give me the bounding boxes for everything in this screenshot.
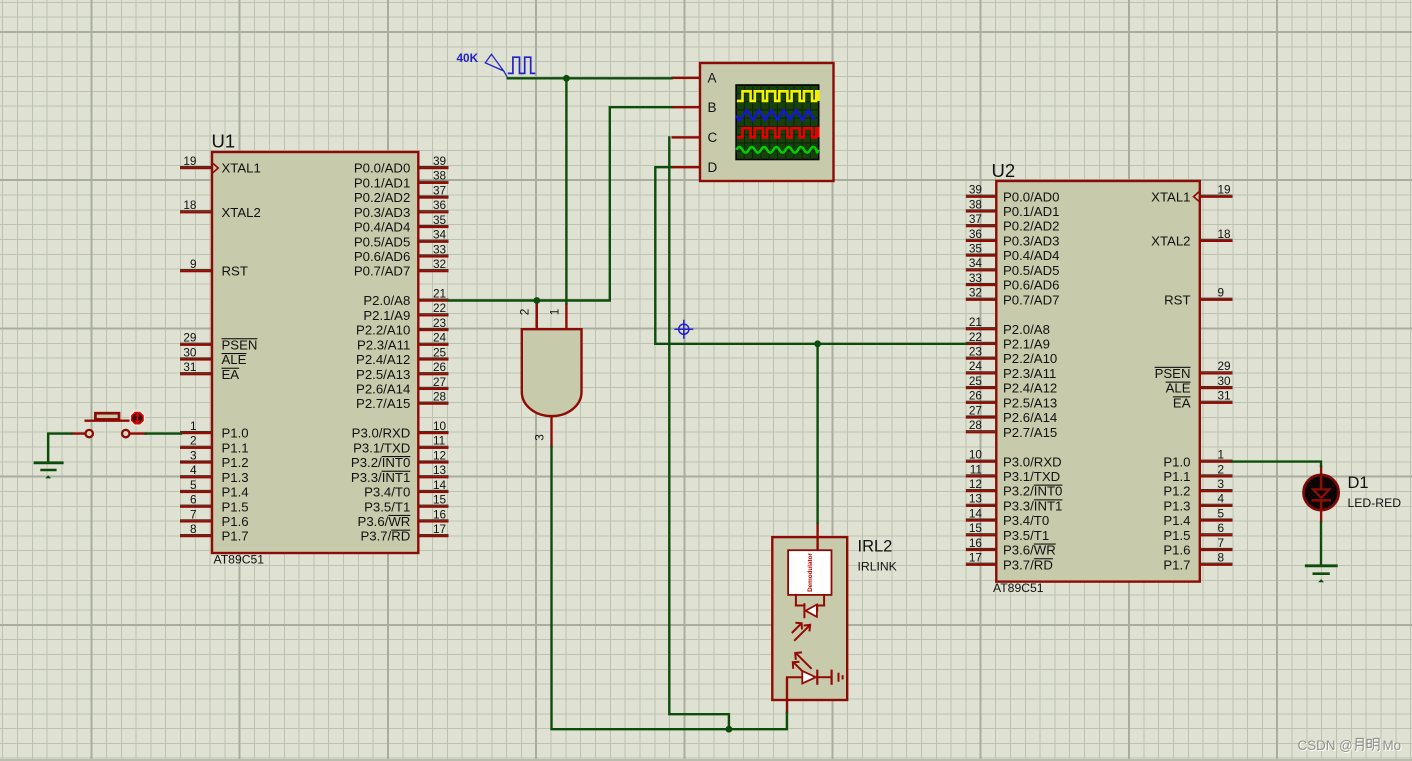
wire and-gate output to IRL2 bottom pin [552,447,787,729]
IRL2 incoming IR arrows [792,623,810,641]
svg-text:P3.4/T0: P3.4/T0 [1003,513,1049,528]
svg-text:P2.5/A13: P2.5/A13 [356,367,410,382]
svg-text:3: 3 [190,448,197,462]
svg-text:2: 2 [190,434,197,448]
IRL2 bottom pin [786,677,788,714]
svg-text:P1.6: P1.6 [222,514,249,529]
svg-text:34: 34 [433,228,447,242]
svg-text:P2.4/A12: P2.4/A12 [356,352,410,367]
U1 pin 24 (P2.3/A11) [357,331,448,353]
label AT89C51 value [993,581,1044,595]
svg-text:15: 15 [969,521,983,535]
svg-text:P1.0: P1.0 [1163,454,1190,469]
svg-text:6: 6 [190,493,197,507]
U2 pin 39 (P0.0/AD0) [966,183,1060,205]
svg-text:14: 14 [433,478,447,492]
U2 pin 15 (P3.5/T1) [966,521,1049,543]
U1 pin 33 (P0.6/AD6) [354,242,449,264]
svg-text:IRLINK: IRLINK [858,560,897,574]
U2 pin 37 (P0.2/AD2) [966,212,1060,234]
svg-text:P0.3/AD3: P0.3/AD3 [1003,233,1059,248]
U2 pin 34 (P0.5/AD5) [966,256,1060,278]
U2 pin 14 (P3.4/T0) [966,506,1049,528]
svg-text:P2.4/A12: P2.4/A12 [1003,381,1057,396]
U2 pin 30 (ALE) [1166,374,1233,396]
wire node to IRL2 top pin [816,344,818,523]
junction and-gate pin 2 node [533,297,540,304]
svg-text:P3.7/RD: P3.7/RD [360,529,410,544]
svg-text:RST: RST [222,264,248,279]
svg-text:P0.3/AD3: P0.3/AD3 [354,205,410,220]
clock source symbol [485,54,535,78]
svg-text:1: 1 [190,419,197,433]
and-gate body [522,329,582,416]
U2 pin 24 (P2.3/A11) [966,359,1056,381]
svg-text:33: 33 [433,242,447,256]
svg-text:14: 14 [969,506,983,520]
svg-text:LED-RED: LED-RED [1348,496,1402,510]
U1 XTAL1 clock marker [213,163,218,173]
U2 pin 35 (P0.4/AD4) [966,241,1060,263]
IRL2 outgoing IR arrows [793,652,812,671]
svg-text:PSEN: PSEN [222,337,258,352]
svg-text:P1.0: P1.0 [222,426,249,441]
svg-text:P0.2/AD2: P0.2/AD2 [1003,219,1059,234]
svg-text:U2: U2 [992,160,1016,181]
svg-text:27: 27 [433,375,446,389]
wire button to ground [48,434,71,462]
label D1 designator [1348,474,1369,492]
svg-text:25: 25 [969,374,983,388]
svg-text:P1.6: P1.6 [1163,543,1190,558]
svg-text:7: 7 [1218,536,1225,550]
svg-text:P1.4: P1.4 [222,485,249,500]
and-gate pin 3 (output) [532,416,552,448]
svg-text:12: 12 [433,448,446,462]
svg-text:P1.5: P1.5 [222,499,249,514]
svg-text:9: 9 [190,257,197,271]
U2 pin 11 (P3.1/TXD) [966,462,1060,484]
U1 pin 36 (P0.3/AD3) [354,198,449,220]
U1 pin 10 (P3.0/RXD) [352,419,449,441]
oscilloscope green trace (channel D) [736,147,818,153]
svg-text:P0.6/AD6: P0.6/AD6 [1003,278,1059,293]
svg-text:30: 30 [1218,374,1232,388]
svg-text:P1.3: P1.3 [1163,498,1190,513]
U1 pin 12 (P3.2/INT0) [351,448,449,470]
svg-text:IRL2: IRL2 [858,538,893,556]
svg-text:31: 31 [1218,389,1231,403]
svg-text:26: 26 [969,389,983,403]
svg-text:32: 32 [969,286,982,300]
svg-text:29: 29 [1218,359,1231,373]
svg-text:40K: 40K [457,51,479,65]
U2 pin 28 (P2.7/A15) [966,418,1057,440]
junction bottom net node [726,726,733,733]
svg-text:7: 7 [190,507,197,521]
svg-text:1: 1 [547,309,561,316]
U1 pin 25 (P2.4/A12) [356,345,448,367]
svg-text:XTAL1: XTAL1 [1151,189,1190,204]
svg-text:4: 4 [1218,492,1225,506]
svg-text:P3.7/RD: P3.7/RD [1003,557,1053,572]
oscilloscope pin A [672,71,717,86]
U2 pin 23 (P2.2/A10) [966,345,1057,367]
svg-text:22: 22 [969,330,982,344]
svg-text:P1.3: P1.3 [222,470,249,485]
svg-text:P3.1/TXD: P3.1/TXD [1003,469,1060,484]
svg-text:P1.2: P1.2 [1163,484,1190,499]
U1 pin 13 (P3.3/INT1) [351,463,449,485]
svg-text:XTAL1: XTAL1 [222,161,261,176]
U1 pin 6 (P1.5) [180,493,249,515]
svg-text:B: B [708,100,717,115]
IRL2 demodulator box [788,550,831,595]
U1 pin 21 (P2.0/A8) [363,286,448,308]
svg-text:P0.4/AD4: P0.4/AD4 [1003,248,1059,263]
wire led D1 to ground [1320,523,1322,565]
svg-text:11: 11 [433,434,445,448]
svg-text:36: 36 [969,227,983,241]
U2 pin 38 (P0.1/AD1) [966,197,1060,219]
svg-text:P0.1/AD1: P0.1/AD1 [1003,204,1059,219]
svg-text:19: 19 [183,154,196,168]
svg-text:24: 24 [969,359,983,373]
svg-text:P3.6/WR: P3.6/WR [1003,543,1056,558]
U2 pin 13 (P3.3/INT1) [966,492,1063,514]
U1 pin 3 (P1.2) [180,448,249,470]
svg-text:28: 28 [969,418,983,432]
svg-text:38: 38 [969,197,983,211]
label U1 designator [212,131,236,152]
svg-text:Mo: Mo [1383,738,1402,753]
svg-text:P2.0/A8: P2.0/A8 [363,293,410,308]
label LED-RED value [1348,496,1402,510]
svg-text:13: 13 [433,463,447,477]
U2 pin 21 (P2.0/A8) [966,315,1050,337]
U1 pin 5 (P1.4) [180,478,249,500]
svg-text:6: 6 [1218,521,1225,535]
U1 pin 38 (P0.1/AD1) [354,169,449,191]
svg-text:2: 2 [1218,462,1225,476]
svg-text:P2.7/A15: P2.7/A15 [1003,425,1057,440]
svg-text:27: 27 [969,403,982,417]
wire 40K to oscilloscope A [508,77,672,79]
push button SW [72,413,146,437]
junction clock node [563,75,570,82]
U2 pin 7 (P1.6) [1163,536,1232,558]
junction IRL2/P2.1 node [814,340,821,347]
svg-text:P3.6/WR: P3.6/WR [358,514,411,529]
label U2 designator [992,160,1016,181]
U2 pin 19 (XTAL1) [1151,183,1232,205]
wire oscilloscope D to U2 P2.1 [655,167,966,344]
U1 pin 37 (P0.2/AD2) [354,183,449,205]
U2 XTAL1 clock marker [1194,192,1199,202]
U2 pin 25 (P2.4/A12) [966,374,1057,396]
led D1 [1304,465,1339,523]
label AT89C51 value [214,553,265,567]
svg-text:10: 10 [433,419,447,433]
svg-text:P2.3/A11: P2.3/A11 [357,337,410,352]
svg-text:12: 12 [969,477,982,491]
U1 pin 22 (P2.1/A9) [363,301,448,323]
U1 pin 34 (P0.5/AD5) [354,228,449,250]
U1 pin 28 (P2.7/A15) [356,390,448,412]
svg-text:32: 32 [433,257,446,271]
and-gate pin 1 [547,303,567,329]
and-gate pin 2 [518,302,538,330]
U2 pin 4 (P1.3) [1163,492,1232,514]
push button actuator marker [130,410,145,425]
svg-text:ALE: ALE [222,352,247,367]
svg-text:3: 3 [1218,477,1225,491]
oscilloscope yellow trace (channel A) [737,91,818,101]
svg-text:19: 19 [1218,183,1231,197]
svg-text:4: 4 [190,463,197,477]
svg-text:8: 8 [190,522,197,536]
svg-text:16: 16 [969,536,983,550]
svg-text:16: 16 [433,507,447,521]
svg-text:EA: EA [222,367,240,382]
U1 pin 9 (RST) [180,257,248,279]
svg-text:29: 29 [183,331,196,345]
svg-text:U1: U1 [212,131,236,152]
U2 pin 27 (P2.6/A14) [966,403,1057,425]
oscilloscope red trace (channel C) [737,128,818,137]
U1 pin 8 (P1.7) [180,522,249,544]
svg-text:P0.2/AD2: P0.2/AD2 [354,190,410,205]
svg-text:35: 35 [433,213,447,227]
svg-text:2: 2 [518,309,532,316]
U1 pin 35 (P0.4/AD4) [354,213,449,235]
svg-text:P0.5/AD5: P0.5/AD5 [354,234,410,249]
IRL2 emitter LED and ground [787,671,843,684]
svg-text:P2.3/A11: P2.3/A11 [1003,366,1056,381]
U1 pin 18 (XTAL2) [180,198,261,220]
U1 pin 31 (EA) [180,360,239,382]
U1 pin 4 (P1.3) [180,463,249,485]
svg-text:38: 38 [433,169,447,183]
wire oscilloscope C to bottom net [669,137,729,728]
svg-text:P2.0/A8: P2.0/A8 [1003,322,1050,337]
svg-text:5: 5 [1218,506,1225,520]
U1 pin 14 (P3.4/T0) [364,478,448,500]
svg-text:31: 31 [183,360,196,374]
svg-text:P2.7/A15: P2.7/A15 [356,396,410,411]
svg-text:XTAL2: XTAL2 [1151,233,1190,248]
wire U1 P2.0 to oscilloscope B [449,107,672,300]
svg-text:36: 36 [433,198,447,212]
svg-text:RST: RST [1164,292,1190,307]
clock source 40K label [457,51,479,65]
U2 pin 1 (P1.0) [1163,448,1232,470]
U1 pin 19 (XTAL1) [180,154,261,176]
svg-text:P0.5/AD5: P0.5/AD5 [1003,263,1059,278]
svg-text:ALE: ALE [1166,381,1191,396]
svg-text:C: C [708,130,718,145]
U2 pin 3 (P1.2) [1163,477,1232,499]
svg-text:P3.3/INT1: P3.3/INT1 [1003,498,1062,513]
svg-text:22: 22 [433,301,446,315]
svg-text:18: 18 [1218,227,1232,241]
svg-text:P1.2: P1.2 [222,455,249,470]
svg-text:28: 28 [433,390,447,404]
svg-text:24: 24 [433,331,447,345]
svg-text:17: 17 [433,522,446,536]
U1 pin 7 (P1.6) [180,507,249,529]
U2 pin 12 (P3.2/INT0) [966,477,1063,499]
microcontroller U2 body [996,181,1200,582]
svg-text:P0.1/AD1: P0.1/AD1 [354,175,410,190]
U2 pin 18 (XTAL2) [1151,227,1232,249]
svg-text:P2.5/A13: P2.5/A13 [1003,395,1057,410]
U1 pin 32 (P0.7/AD7) [354,257,449,279]
svg-text:P3.5/T1: P3.5/T1 [364,499,410,514]
svg-text:26: 26 [433,360,447,374]
svg-text:CSDN @: CSDN @ [1298,738,1353,753]
svg-text:P2.1/A9: P2.1/A9 [363,308,410,323]
watermark CSDN [1298,738,1403,754]
U2 pin 5 (P1.4) [1163,506,1232,528]
svg-text:P3.1/TXD: P3.1/TXD [353,440,410,455]
IRL2 top pin [816,522,818,551]
U2 pin 36 (P0.3/AD3) [966,227,1060,249]
U2 pin 17 (P3.7/RD) [966,551,1053,573]
microcontroller U1 body [212,152,418,553]
svg-text:13: 13 [969,492,983,506]
U1 pin 17 (P3.7/RD) [360,522,448,544]
U1 pin 39 (P0.0/AD0) [354,154,449,176]
oscilloscope screen [736,85,819,160]
label IRL2 designator [858,538,893,556]
svg-text:P1.1: P1.1 [222,440,249,455]
svg-text:21: 21 [433,286,446,300]
ground symbol (led) [1305,566,1338,583]
oscilloscope blue trace (channel B) [736,110,814,120]
U1 pin 15 (P3.5/T1) [364,493,448,515]
svg-text:EA: EA [1173,395,1191,410]
svg-text:P2.6/A14: P2.6/A14 [356,382,410,397]
U2 pin 32 (P0.7/AD7) [966,286,1060,308]
svg-text:P2.2/A10: P2.2/A10 [356,323,410,338]
svg-text:AT89C51: AT89C51 [214,553,265,567]
U2 pin 2 (P1.1) [1163,462,1232,484]
svg-text:39: 39 [433,154,446,168]
U1 pin 2 (P1.1) [180,434,249,456]
U2 pin 33 (P0.6/AD6) [966,271,1060,293]
svg-text:P2.1/A9: P2.1/A9 [1003,337,1050,352]
svg-text:P2.6/A14: P2.6/A14 [1003,410,1057,425]
svg-text:37: 37 [969,212,982,226]
svg-text:XTAL2: XTAL2 [222,205,261,220]
label IRLINK value [858,560,897,574]
oscilloscope pin D [672,160,718,175]
svg-text:8: 8 [1218,551,1225,565]
oscilloscope body [700,63,834,181]
svg-text:10: 10 [969,448,983,462]
svg-text:21: 21 [969,315,982,329]
svg-text:P3.2/INT0: P3.2/INT0 [351,455,410,470]
svg-text:P1.7: P1.7 [222,529,249,544]
U2 pin 10 (P3.0/RXD) [966,448,1062,470]
svg-text:15: 15 [433,493,447,507]
svg-text:23: 23 [969,345,983,359]
svg-text:23: 23 [433,316,447,330]
svg-text:D1: D1 [1348,474,1369,492]
U1 pin 16 (P3.6/WR) [358,507,449,529]
svg-text:P0.0/AD0: P0.0/AD0 [1003,189,1059,204]
U2 pin 6 (P1.5) [1163,521,1232,543]
U2 pin 16 (P3.6/WR) [966,536,1056,558]
U1 pin 30 (ALE) [180,345,247,367]
U1 pin 23 (P2.2/A10) [356,316,448,338]
oscilloscope pin C [672,130,718,145]
svg-text:P0.7/AD7: P0.7/AD7 [1003,292,1059,307]
svg-text:35: 35 [969,241,983,255]
svg-text:Demodulator: Demodulator [807,553,814,592]
svg-text:P0.7/AD7: P0.7/AD7 [354,264,410,279]
wire clock to and-gate pin 1 [565,78,567,303]
U2 pin 31 (EA) [1173,389,1233,411]
svg-text:AT89C51: AT89C51 [993,581,1044,595]
svg-text:25: 25 [433,345,447,359]
U1 pin 11 (P3.1/TXD) [353,434,448,456]
svg-text:P1.5: P1.5 [1163,528,1190,543]
svg-text:3: 3 [532,434,546,441]
svg-text:P1.4: P1.4 [1163,513,1190,528]
U2 pin 22 (P2.1/A9) [966,330,1050,352]
svg-text:9: 9 [1218,286,1225,300]
svg-text:A: A [708,71,717,86]
U1 pin 1 (P1.0) [180,419,249,441]
ground symbol (button) [34,463,64,479]
irlink IRL2 body [772,537,847,700]
U2 pin 26 (P2.5/A13) [966,389,1057,411]
svg-text:39: 39 [969,183,982,197]
U1 pin 26 (P2.5/A13) [356,360,448,382]
U1 pin 27 (P2.6/A14) [356,375,448,397]
oscilloscope pin B [672,100,717,115]
svg-text:P3.5/T1: P3.5/T1 [1003,528,1049,543]
svg-text:P3.0/RXD: P3.0/RXD [352,426,411,441]
svg-text:P3.0/RXD: P3.0/RXD [1003,454,1062,469]
wire button to U1 P1.0 [146,432,181,434]
svg-text:P3.3/INT1: P3.3/INT1 [351,470,410,485]
svg-text:D: D [708,160,718,175]
svg-text:11: 11 [970,462,982,476]
wire U2 P1.0 to led D1 [1233,462,1322,466]
svg-text:30: 30 [183,345,197,359]
svg-text:P2.2/A10: P2.2/A10 [1003,351,1057,366]
svg-text:37: 37 [433,183,446,197]
svg-text:5: 5 [190,478,197,492]
svg-text:P1.7: P1.7 [1163,557,1190,572]
svg-text:33: 33 [969,271,983,285]
svg-text:P0.4/AD4: P0.4/AD4 [354,220,410,235]
svg-text:PSEN: PSEN [1155,366,1191,381]
svg-text:17: 17 [969,551,982,565]
U2 pin 9 (RST) [1164,286,1232,308]
svg-text:P3.4/T0: P3.4/T0 [364,485,410,500]
U1 pin 29 (PSEN) [180,331,257,353]
U2 pin 8 (P1.7) [1163,551,1232,573]
svg-text:P1.1: P1.1 [1163,469,1190,484]
svg-text:18: 18 [183,198,197,212]
svg-text:P0.0/AD0: P0.0/AD0 [354,161,410,176]
svg-text:P3.2/INT0: P3.2/INT0 [1003,484,1062,499]
U2 pin 29 (PSEN) [1155,359,1233,381]
